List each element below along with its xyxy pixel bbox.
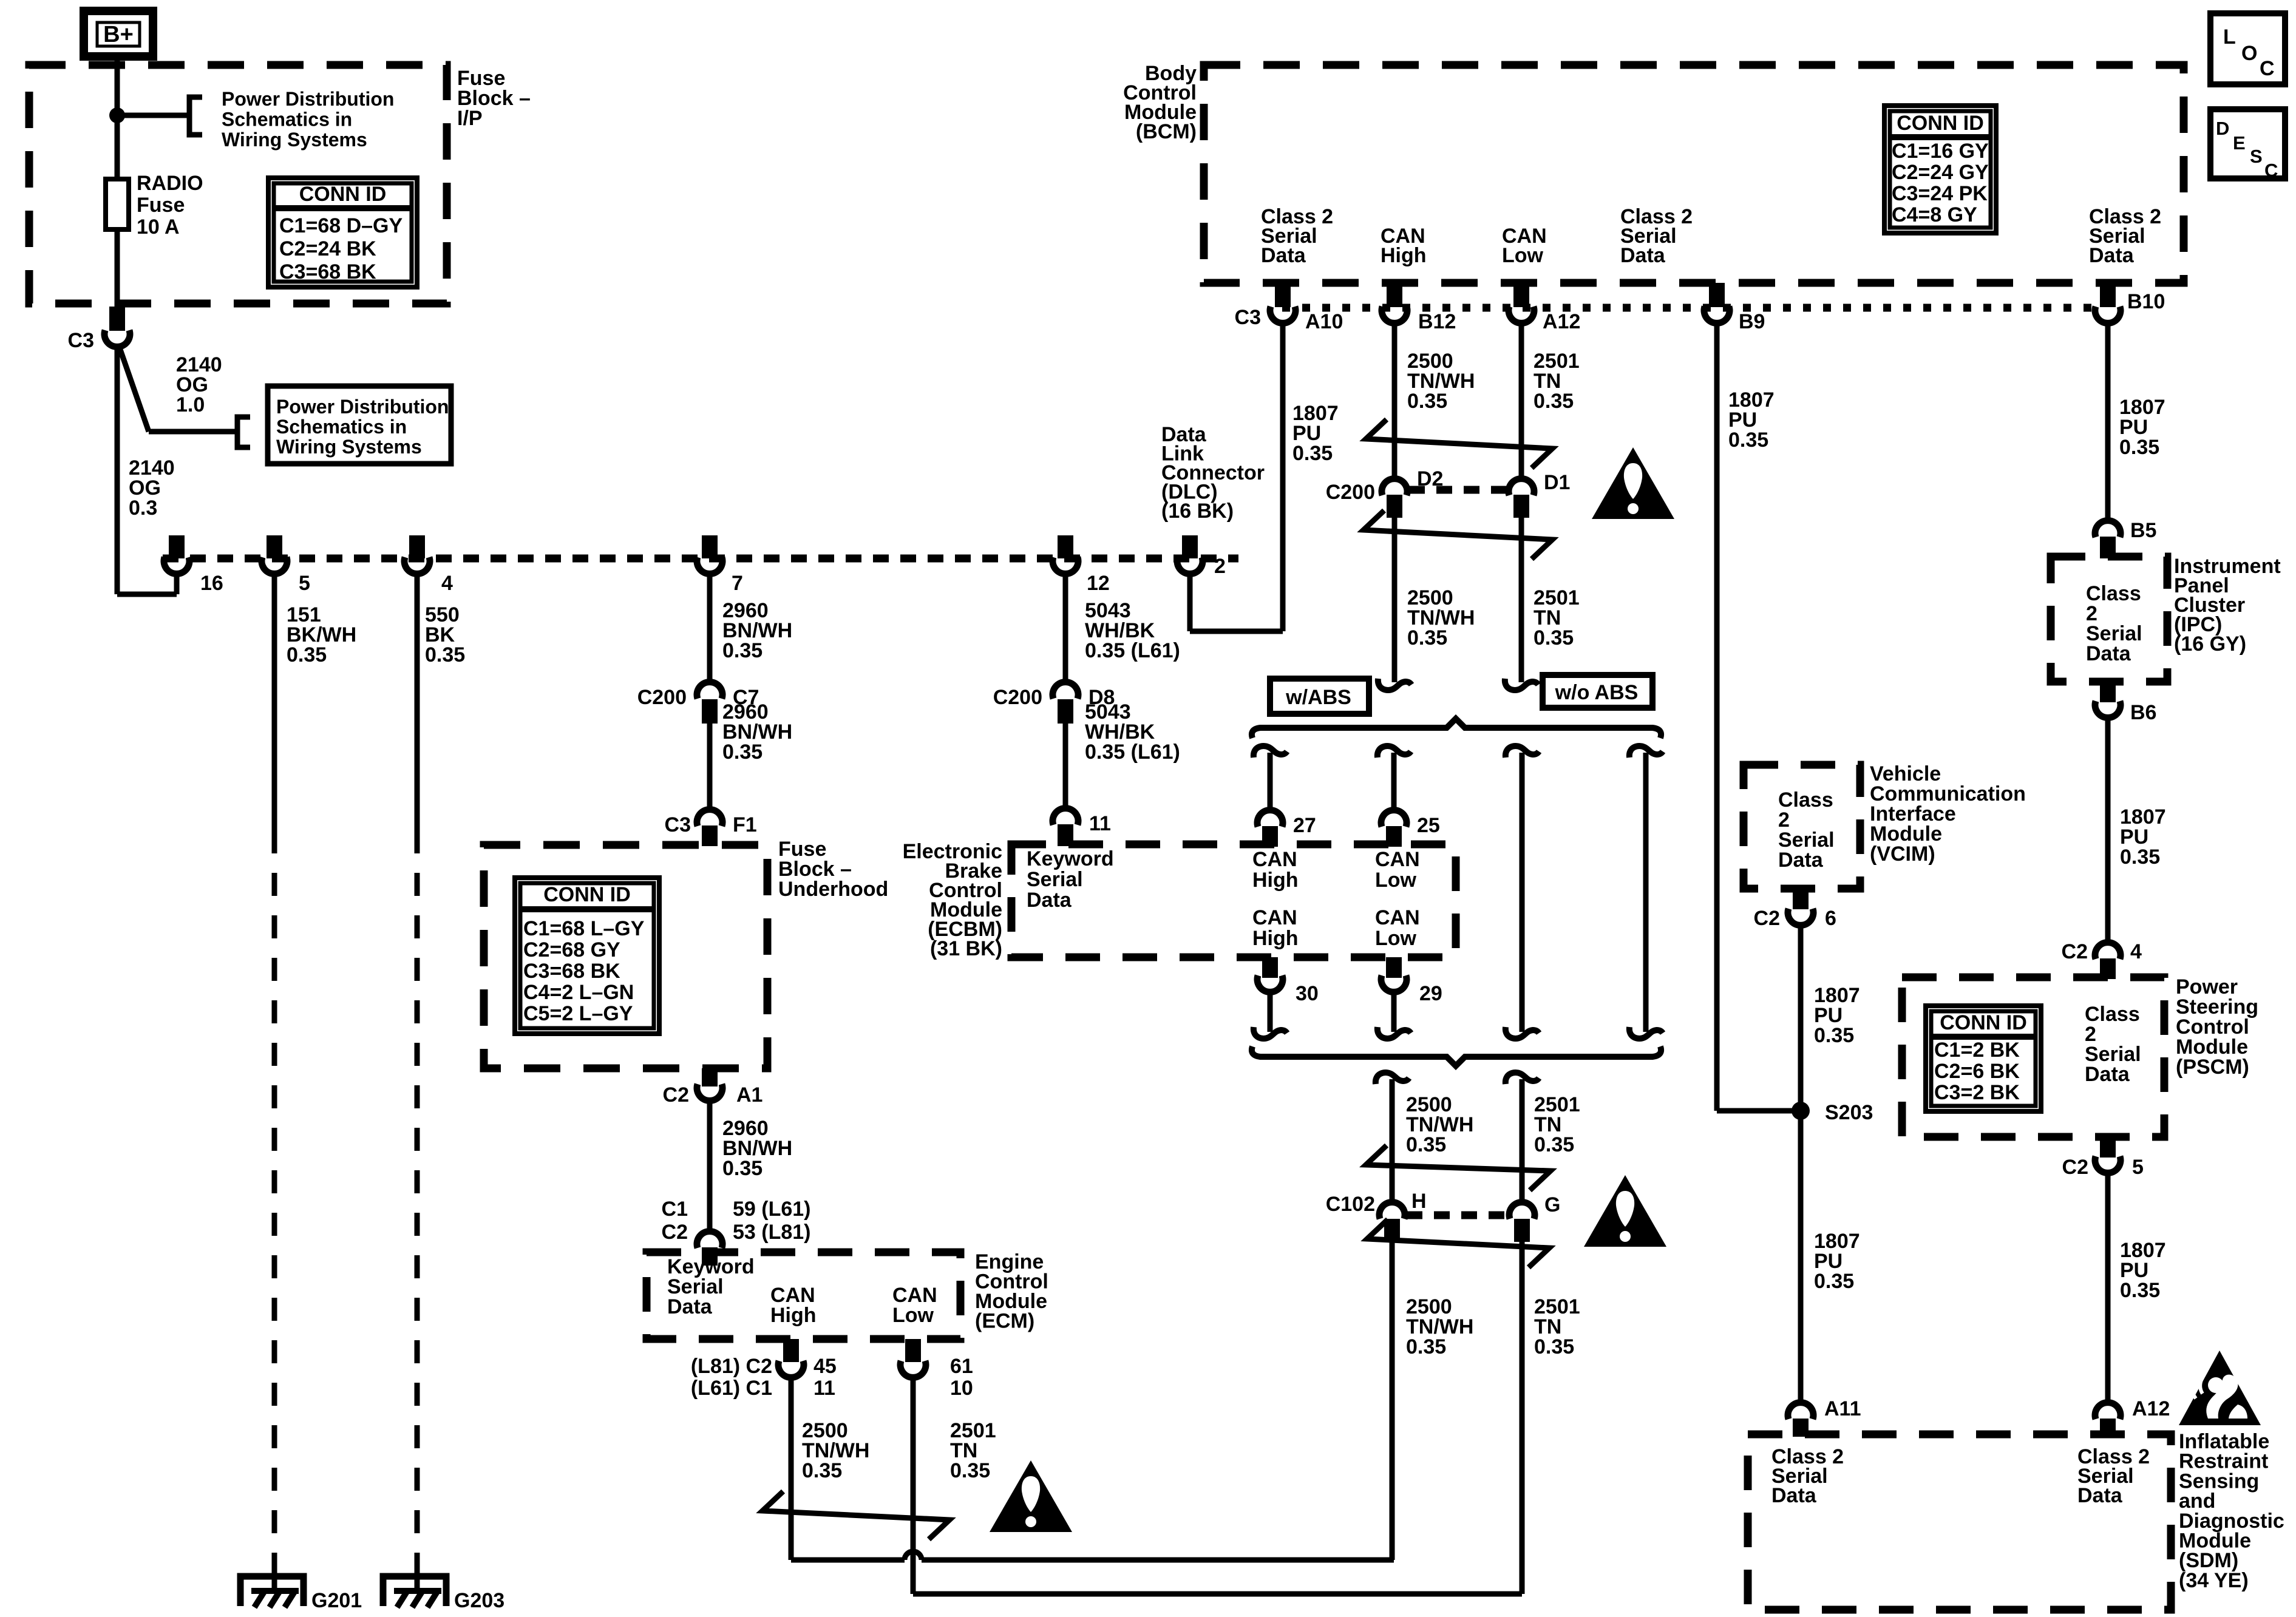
svg-text:w/o ABS: w/o ABS [1555, 681, 1639, 704]
svg-text:45: 45 [813, 1355, 837, 1378]
svg-text:27: 27 [1293, 814, 1316, 837]
svg-text:5: 5 [299, 572, 310, 595]
svg-text:S203: S203 [1825, 1101, 1873, 1124]
svg-text:61: 61 [950, 1355, 973, 1378]
svg-text:Data: Data [1620, 244, 1666, 267]
svg-text:Data: Data [2089, 244, 2135, 267]
svg-text:High: High [1381, 244, 1427, 267]
svg-text:High: High [1252, 927, 1299, 950]
svg-text:G201: G201 [311, 1589, 362, 1612]
svg-text:0.35: 0.35 [1533, 390, 1574, 413]
svg-text:0.3: 0.3 [129, 497, 157, 520]
svg-text:A12: A12 [1543, 310, 1580, 333]
svg-text:0.35: 0.35 [722, 741, 763, 764]
svg-text:C2: C2 [663, 1083, 689, 1107]
svg-text:C3: C3 [68, 329, 94, 352]
svg-text:C1: C1 [662, 1198, 688, 1221]
svg-text:Data: Data [667, 1295, 713, 1318]
svg-text:Data: Data [1771, 1484, 1817, 1507]
svg-text:A11: A11 [1824, 1397, 1861, 1420]
svg-text:C200: C200 [1326, 481, 1375, 504]
svg-text:CAN: CAN [1252, 906, 1297, 929]
svg-text:0.35: 0.35 [1814, 1270, 1854, 1293]
svg-text:S: S [2250, 146, 2263, 167]
svg-text:C2=6 BK: C2=6 BK [1934, 1060, 2020, 1083]
svg-text:(VCIM): (VCIM) [1870, 842, 1935, 866]
svg-text:29: 29 [1419, 982, 1442, 1005]
svg-text:C4=8 GY: C4=8 GY [1892, 203, 1977, 226]
svg-text:Power Distribution: Power Distribution [222, 88, 394, 110]
svg-text:A1: A1 [736, 1083, 763, 1107]
svg-text:11: 11 [813, 1377, 835, 1400]
svg-text:0.35: 0.35 [2119, 436, 2159, 459]
svg-text:0.35: 0.35 [950, 1459, 990, 1482]
svg-text:C3: C3 [1235, 306, 1261, 329]
svg-text:0.35: 0.35 [1406, 1335, 1446, 1358]
svg-text:0.35: 0.35 [287, 643, 327, 666]
svg-text:C2=68 GY: C2=68 GY [523, 938, 620, 961]
svg-text:0.35: 0.35 [1407, 626, 1447, 649]
svg-text:C200: C200 [637, 686, 687, 709]
svg-text:CAN: CAN [1375, 906, 1420, 929]
svg-text:C: C [2260, 57, 2275, 80]
svg-text:RADIO: RADIO [137, 172, 203, 195]
svg-text:B5: B5 [2130, 519, 2156, 542]
svg-text:2: 2 [1214, 555, 1226, 578]
svg-text:High: High [1252, 869, 1299, 892]
svg-text:0.35 (L61): 0.35 (L61) [1085, 741, 1180, 764]
svg-text:Data: Data [1261, 244, 1306, 267]
svg-text:L: L [2223, 25, 2236, 49]
svg-text:E: E [2233, 132, 2246, 154]
svg-text:Fuse: Fuse [137, 194, 185, 217]
svg-text:C1=16 GY: C1=16 GY [1892, 140, 1989, 163]
svg-text:C2: C2 [2062, 1156, 2088, 1179]
svg-text:10 A: 10 A [137, 215, 180, 239]
svg-text:Wiring Systems: Wiring Systems [222, 129, 367, 151]
svg-text:0.35: 0.35 [802, 1459, 842, 1482]
svg-text:C1=68 D–GY: C1=68 D–GY [279, 214, 402, 237]
svg-text:C2: C2 [2062, 940, 2088, 963]
svg-text:C3=68 BK: C3=68 BK [279, 260, 376, 283]
svg-text:0.35: 0.35 [1533, 626, 1574, 649]
svg-text:C2=24 GY: C2=24 GY [1892, 161, 1989, 184]
svg-text:C1=2 BK: C1=2 BK [1934, 1039, 2020, 1062]
svg-text:G: G [1544, 1193, 1560, 1216]
svg-text:5: 5 [2132, 1156, 2144, 1179]
svg-text:CONN ID: CONN ID [1940, 1011, 2027, 1034]
svg-text:25: 25 [1417, 814, 1440, 837]
svg-text:B12: B12 [1418, 310, 1456, 333]
svg-text:Low: Low [1502, 244, 1544, 267]
svg-text:H: H [1411, 1190, 1427, 1213]
svg-text:O: O [2241, 42, 2257, 65]
svg-text:(L61) C1: (L61) C1 [691, 1377, 772, 1400]
svg-text:Data: Data [2077, 1484, 2123, 1507]
svg-text:C1=68 L–GY: C1=68 L–GY [523, 917, 645, 940]
svg-text:30: 30 [1296, 982, 1319, 1005]
svg-text:A10: A10 [1305, 310, 1343, 333]
svg-text:Schematics in: Schematics in [222, 109, 352, 131]
svg-text:Low: Low [892, 1304, 934, 1327]
svg-text:CAN: CAN [1252, 848, 1297, 871]
svg-text:(34 YE): (34 YE) [2179, 1569, 2249, 1592]
svg-text:Keyword: Keyword [1027, 847, 1114, 870]
svg-text:B+: B+ [103, 22, 134, 47]
svg-text:Schematics in: Schematics in [276, 416, 407, 438]
svg-text:B9: B9 [1739, 310, 1765, 333]
svg-text:A12: A12 [2132, 1397, 2170, 1420]
svg-text:B10: B10 [2127, 290, 2165, 313]
svg-text:0.35: 0.35 [722, 639, 763, 662]
svg-text:Power Distribution: Power Distribution [276, 396, 449, 418]
svg-text:(31 BK): (31 BK) [930, 937, 1002, 960]
svg-text:C2: C2 [1754, 907, 1780, 930]
svg-text:D1: D1 [1544, 471, 1570, 494]
svg-text:10: 10 [950, 1377, 973, 1400]
svg-text:0.35: 0.35 [425, 643, 465, 666]
svg-text:D: D [2216, 118, 2229, 139]
svg-text:16: 16 [200, 572, 223, 595]
svg-text:Data: Data [1778, 849, 1824, 872]
svg-text:(BCM): (BCM) [1136, 120, 1197, 143]
svg-text:0.35: 0.35 [1292, 442, 1333, 465]
svg-text:1.0: 1.0 [176, 393, 205, 416]
svg-text:11: 11 [1089, 812, 1111, 835]
svg-text:59 (L61): 59 (L61) [733, 1198, 811, 1221]
svg-text:CAN: CAN [1375, 848, 1420, 871]
svg-text:Serial: Serial [1027, 868, 1083, 891]
svg-text:0.35 (L61): 0.35 (L61) [1085, 639, 1180, 662]
svg-text:High: High [770, 1304, 817, 1327]
svg-text:CONN ID: CONN ID [543, 883, 631, 906]
svg-text:C200: C200 [993, 686, 1042, 709]
svg-text:0.35: 0.35 [1406, 1133, 1446, 1156]
svg-text:C2: C2 [662, 1221, 688, 1244]
svg-text:Underhood: Underhood [778, 878, 888, 901]
svg-text:0.35: 0.35 [1728, 429, 1768, 452]
svg-text:C5=2 L–GY: C5=2 L–GY [523, 1002, 633, 1025]
svg-text:C3=24 PK: C3=24 PK [1892, 182, 1988, 205]
svg-text:w/ABS: w/ABS [1285, 686, 1351, 709]
svg-text:0.35: 0.35 [2120, 846, 2160, 869]
svg-text:Wiring Systems: Wiring Systems [276, 436, 422, 458]
svg-text:Data: Data [2086, 642, 2131, 665]
svg-text:0.35: 0.35 [1814, 1024, 1854, 1047]
svg-text:CONN ID: CONN ID [1897, 112, 1984, 135]
svg-text:C3: C3 [665, 813, 691, 836]
svg-text:C3=2 BK: C3=2 BK [1934, 1081, 2020, 1104]
svg-text:53 (L81): 53 (L81) [733, 1221, 811, 1244]
svg-text:12: 12 [1087, 572, 1110, 595]
svg-text:0.35: 0.35 [2120, 1279, 2160, 1302]
svg-text:4: 4 [2130, 940, 2142, 963]
svg-text:0.35: 0.35 [1534, 1133, 1574, 1156]
svg-text:B6: B6 [2130, 701, 2156, 724]
svg-text:G203: G203 [454, 1589, 504, 1612]
svg-text:Low: Low [1375, 927, 1417, 950]
svg-text:Data: Data [1027, 889, 1072, 912]
svg-text:0.35: 0.35 [1407, 390, 1447, 413]
svg-text:4: 4 [441, 572, 453, 595]
svg-text:C2=24 BK: C2=24 BK [279, 237, 376, 260]
svg-text:C4=2 L–GN: C4=2 L–GN [523, 981, 634, 1004]
svg-text:(PSCM): (PSCM) [2176, 1056, 2249, 1079]
svg-text:Data: Data [2085, 1063, 2130, 1086]
svg-text:0.35: 0.35 [722, 1157, 763, 1180]
svg-text:F1: F1 [733, 813, 757, 836]
svg-text:I/P: I/P [457, 107, 483, 130]
svg-text:C102: C102 [1326, 1193, 1375, 1216]
svg-text:CONN ID: CONN ID [299, 183, 387, 206]
svg-text:C3=68 BK: C3=68 BK [523, 960, 620, 983]
svg-text:(16 GY): (16 GY) [2174, 632, 2246, 656]
svg-text:6: 6 [1825, 907, 1836, 930]
svg-text:Low: Low [1375, 869, 1417, 892]
svg-text:7: 7 [732, 572, 743, 595]
svg-text:(ECM): (ECM) [975, 1310, 1034, 1333]
svg-text:C: C [2264, 160, 2278, 181]
svg-text:(16 BK): (16 BK) [1161, 500, 1234, 523]
svg-text:0.35: 0.35 [1534, 1335, 1574, 1358]
svg-text:(L81) C2: (L81) C2 [691, 1355, 772, 1378]
